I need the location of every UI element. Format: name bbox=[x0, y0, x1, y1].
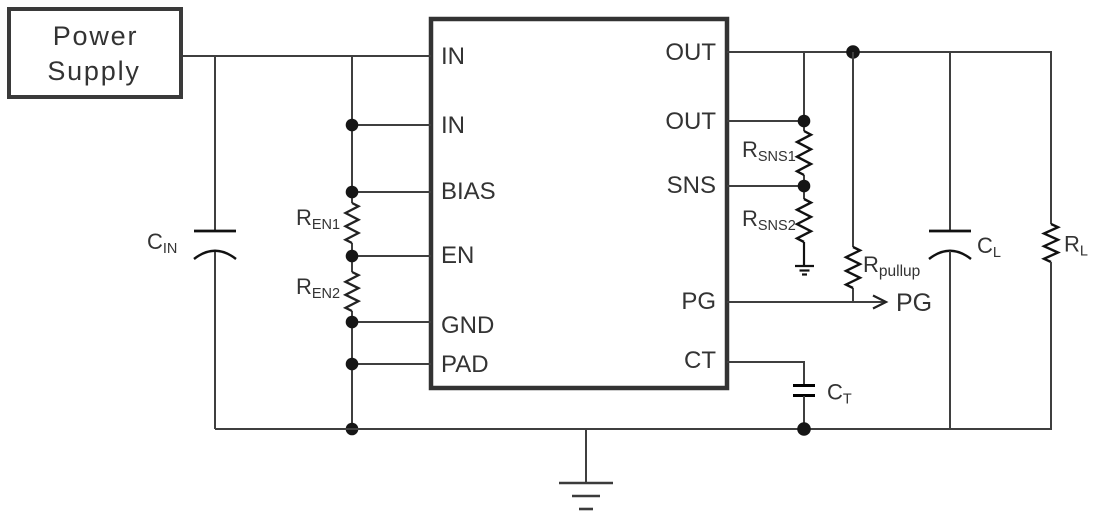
wire: SNS divider rail from OUT wire bbox=[803, 52, 805, 131]
wire: Rpullup rail from OUT wire bbox=[852, 52, 854, 247]
wire: CL bottom to ground bus bbox=[949, 251, 951, 429]
wire: between REN1 and REN2 bbox=[351, 243, 353, 272]
svg-text:Power: Power bbox=[53, 21, 139, 51]
wire: EN pin bbox=[352, 255, 431, 257]
wire: between RSNS1 and RSNS2 bbox=[803, 175, 805, 199]
wire: GND pin bbox=[352, 321, 431, 323]
svg-text:IN: IN bbox=[441, 43, 465, 70]
wire: RL bottom to ground bus bbox=[1050, 262, 1052, 429]
junction dot: Rpullup at OUT wire bbox=[846, 45, 860, 59]
svg-text:BIAS: BIAS bbox=[441, 178, 496, 205]
wire: BIAS pin bbox=[352, 191, 431, 193]
ground bus wire (bottom) bbox=[215, 428, 1052, 430]
svg-text:CT: CT bbox=[684, 347, 716, 374]
resistor REN1 bbox=[296, 203, 359, 243]
ground symbol (small, below RSNS2) bbox=[795, 266, 814, 275]
junction dot: SNS at SNS rail bbox=[798, 180, 811, 193]
wire: CT pin horizontal bbox=[727, 362, 804, 385]
wire: RL rail from OUT wire bbox=[1050, 52, 1052, 224]
resistor REN2 bbox=[296, 272, 359, 311]
wire: OUT pin 2 bbox=[727, 120, 804, 122]
wire: OUT pin 1 to load rail bbox=[727, 51, 1052, 53]
wire: SNS pin bbox=[727, 185, 804, 187]
svg-text:PG: PG bbox=[681, 288, 716, 315]
wire: PAD pin bbox=[352, 363, 431, 365]
svg-text:PAD: PAD bbox=[441, 351, 489, 378]
junction dot: IN2 bbox=[346, 119, 359, 132]
junction dot: GND bbox=[346, 316, 359, 329]
junction dot: EN bbox=[346, 250, 359, 263]
junction dot: BIAS bbox=[346, 186, 359, 199]
capacitor CIN bbox=[147, 229, 236, 259]
svg-text:PG: PG bbox=[896, 289, 932, 317]
wire: EN divider rail (vertical) bbox=[351, 56, 353, 203]
IC U1 bbox=[431, 19, 727, 388]
svg-text:EN: EN bbox=[441, 242, 474, 269]
svg-text:OUT: OUT bbox=[665, 108, 716, 135]
wire: CIN bottom to ground bus bbox=[214, 251, 216, 429]
resistor RSNS1 bbox=[742, 131, 811, 175]
wire: power supply to IN pin 1 bbox=[183, 55, 431, 57]
junction dot: CT rail at ground bus bbox=[797, 422, 811, 436]
wire: PG pin to arrow bbox=[727, 301, 884, 303]
svg-text:IN: IN bbox=[441, 112, 465, 139]
svg-text:GND: GND bbox=[441, 312, 494, 339]
PG output arrow bbox=[873, 289, 932, 317]
wire: Rpullup bottom to PG wire bbox=[852, 288, 854, 302]
wire: input rail down to CIN top plate bbox=[214, 56, 216, 231]
capacitor CT bbox=[793, 380, 852, 408]
svg-text:SNS: SNS bbox=[667, 172, 716, 199]
power supply box bbox=[9, 9, 181, 97]
wire: RSNS2 to small ground bbox=[803, 242, 805, 266]
junction dot: OUT2 at SNS rail bbox=[798, 115, 811, 128]
ground symbol (main) bbox=[559, 429, 613, 509]
junction dot: PAD bbox=[346, 358, 359, 371]
capacitor CL bbox=[929, 231, 1001, 261]
wire: IN pin 2 bbox=[352, 124, 431, 126]
svg-text:OUT: OUT bbox=[665, 39, 716, 66]
wire: CL rail from OUT wire bbox=[949, 52, 951, 231]
resistor RSNS2 bbox=[742, 199, 811, 242]
junction dot: EN rail at ground bus bbox=[346, 423, 359, 436]
resistor Rpullup bbox=[846, 247, 920, 288]
wire: below REN2 to ground bus bbox=[351, 311, 353, 429]
wire: CT bottom to ground bus bbox=[803, 396, 805, 429]
svg-text:Supply: Supply bbox=[47, 56, 140, 86]
resistor RL bbox=[1044, 224, 1088, 262]
